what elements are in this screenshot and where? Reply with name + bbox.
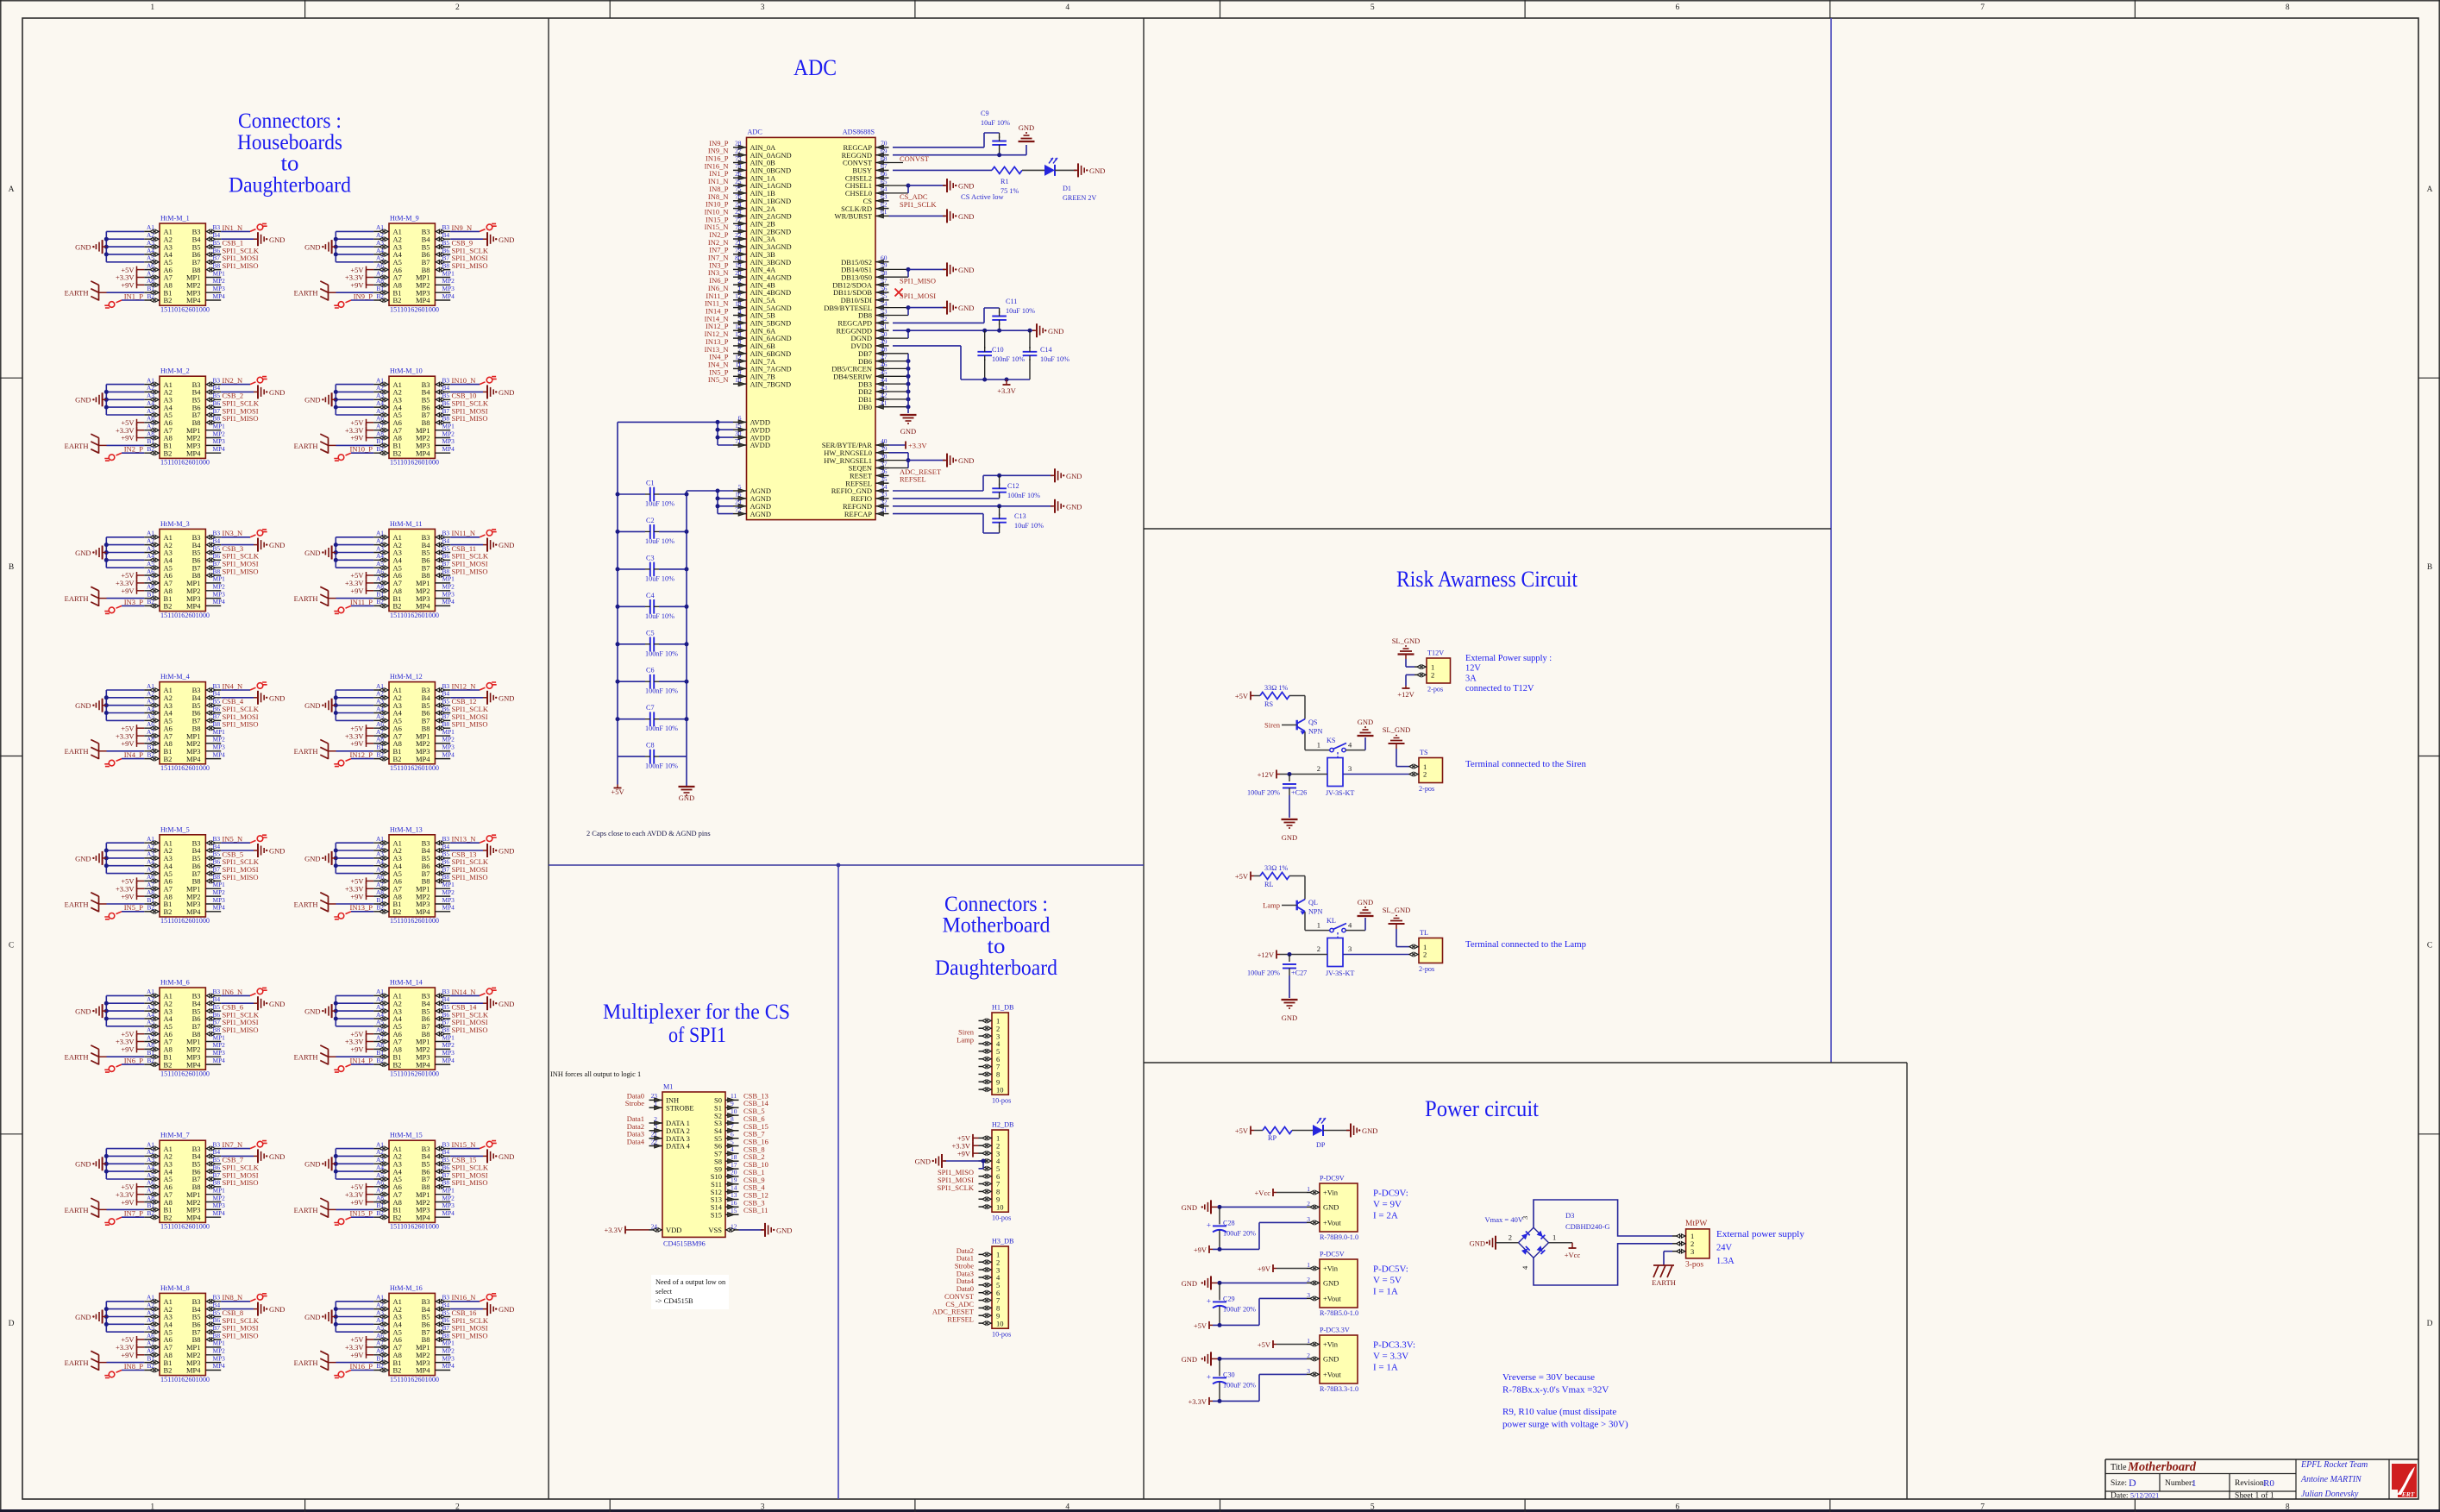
svg-text:IN3_P: IN3_P	[124, 598, 143, 606]
svg-text:EARTH: EARTH	[294, 1358, 318, 1367]
svg-text:+9V: +9V	[957, 1149, 971, 1158]
pin B6 of HtM-M_1	[205, 254, 221, 255]
svg-text:V = 3.3V: V = 3.3V	[1373, 1352, 1408, 1362]
svg-text:A7: A7	[147, 881, 154, 888]
svg-text:10-pos: 10-pos	[992, 1214, 1011, 1222]
pin B4 of HtM-M_4	[205, 697, 221, 699]
connector HtM-M_3	[160, 529, 205, 611]
pin B3 of HtM-M_6	[205, 994, 221, 996]
EARTH symbol at pin B1 of HtM-M_11	[328, 591, 329, 606]
svg-text:+9V: +9V	[1194, 1245, 1207, 1254]
svg-text:A6: A6	[147, 1026, 154, 1034]
pin B4 of HtM-M_11	[435, 544, 450, 546]
svg-text:MP4: MP4	[442, 292, 455, 300]
pin A5 of HtM-M_9	[373, 261, 389, 263]
svg-text:P-DC3.3V:: P-DC3.3V:	[1373, 1340, 1415, 1351]
wire GND bus to pins A1-A5 of HtM-M_2	[106, 384, 144, 386]
pin A8 of HtM-M_2	[144, 437, 160, 439]
svg-text:2: 2	[654, 1115, 657, 1123]
svg-text:of SPI1: of SPI1	[668, 1024, 726, 1047]
pin A8 of HtM-M_8	[144, 1354, 160, 1356]
svg-text:B1: B1	[147, 1201, 154, 1209]
svg-text:MP4: MP4	[442, 1362, 455, 1370]
wire and power port GND at pin B4 of HtM-M_15	[450, 1155, 483, 1157]
pin B5 of HtM-M_5	[205, 857, 221, 859]
pin A6 of HtM-M_11	[373, 574, 389, 576]
svg-text:IN7_N: IN7_N	[223, 1140, 243, 1149]
pin AIN_4BGND (1) of ADC with net IN6_N	[733, 292, 747, 293]
pin AIN_2B (77) of ADC with net IN15_P	[733, 223, 747, 224]
svg-text:A: A	[2427, 185, 2433, 194]
svg-text:GND: GND	[269, 693, 285, 702]
pin A7 of HtM-M_13	[373, 888, 389, 889]
svg-text:9: 9	[731, 1100, 734, 1107]
svg-text:B5: B5	[213, 698, 221, 706]
pin A6 of HtM-M_3	[144, 574, 160, 576]
svg-text:10uF 10%: 10uF 10%	[645, 574, 674, 582]
svg-text:GND: GND	[499, 847, 514, 856]
pin B4 of HtM-M_2	[205, 391, 221, 392]
svg-text:100uF 20%: 100uF 20%	[1223, 1381, 1256, 1389]
svg-text:43: 43	[881, 384, 888, 392]
svg-text:B5: B5	[213, 1308, 221, 1316]
pin AGND (29) of ADC	[733, 505, 747, 507]
svg-text:A4: A4	[376, 705, 384, 712]
svg-text:C10: C10	[992, 346, 1004, 354]
svg-text:AVDD: AVDD	[750, 441, 770, 449]
svg-text:IN13_P: IN13_P	[350, 903, 373, 912]
svg-text:15110162601000: 15110162601000	[390, 459, 439, 467]
svg-text:B2: B2	[393, 1214, 402, 1222]
svg-text:A8: A8	[147, 1194, 154, 1201]
svg-text:C4: C4	[646, 592, 655, 599]
pin A3 of HtM-M_3	[144, 552, 160, 554]
power ports +5V +3.3V +9V of HtM-M_1	[136, 270, 138, 285]
svg-text:A5: A5	[147, 407, 154, 415]
svg-text:6: 6	[731, 1131, 734, 1139]
pin B6 of HtM-M_10	[435, 406, 450, 408]
pin A3 of HtM-M_16	[373, 1316, 389, 1318]
svg-text:GND: GND	[75, 243, 91, 252]
svg-text:S15: S15	[711, 1210, 722, 1219]
svg-text:+5V: +5V	[1235, 1126, 1249, 1135]
pin MP1 of HtM-M_9	[435, 277, 450, 279]
pin B8 of HtM-M_12	[435, 727, 450, 729]
pin 8 of H2_DB	[979, 1190, 993, 1192]
svg-text:B1: B1	[147, 285, 154, 292]
svg-text:GND: GND	[958, 456, 974, 465]
pin B5 of HtM-M_12	[435, 705, 450, 706]
junction dots on GND bus of HtM-M_10	[334, 390, 338, 394]
svg-text:B7: B7	[442, 560, 450, 568]
svg-text:B8: B8	[442, 261, 450, 269]
svg-text:100uF 20%: 100uF 20%	[1247, 789, 1280, 797]
pin AIN_5A (17) of ADC with net IN11_P	[733, 299, 747, 301]
svg-text:A7: A7	[147, 1033, 154, 1041]
svg-text:37: 37	[881, 460, 888, 467]
svg-text:IN3_N: IN3_N	[223, 529, 243, 537]
svg-text:SPI1_MISO: SPI1_MISO	[223, 414, 259, 423]
pin B1 of HtM-M_1	[144, 292, 160, 293]
pin MP2 of HtM-M_6	[205, 1048, 221, 1050]
wire EARTH to pin B1 of HtM-M_11	[329, 598, 336, 599]
pin B2 of HtM-M_14	[373, 1063, 389, 1065]
svg-text:Sheet 1 of 1: Sheet 1 of 1	[2235, 1491, 2274, 1501]
svg-text:A2: A2	[147, 384, 154, 392]
pin B4 of HtM-M_10	[435, 391, 450, 392]
pin VDD (24) of M1 with +3.3V port	[649, 1229, 663, 1231]
svg-text:HtM-M_4: HtM-M_4	[160, 673, 190, 681]
svg-text:A2: A2	[147, 231, 154, 239]
pin B5 of HtM-M_1	[205, 246, 221, 248]
pin A3 of HtM-M_6	[144, 1010, 160, 1012]
pin B5 of HtM-M_4	[205, 705, 221, 706]
pin A2 of HtM-M_11	[373, 544, 389, 546]
svg-text:58: 58	[881, 269, 888, 277]
wire EARTH to pin B1 of HtM-M_13	[329, 903, 336, 905]
pin B6 of HtM-M_12	[435, 712, 450, 714]
pin B1 of HtM-M_5	[144, 903, 160, 905]
svg-text:B2: B2	[376, 904, 384, 912]
svg-text:IN8_P: IN8_P	[124, 1362, 143, 1371]
capacitor C5	[618, 643, 645, 645]
svg-text:+9V: +9V	[350, 739, 364, 748]
svg-text:B5: B5	[213, 850, 221, 858]
wire and power port GND at pin B4 of HtM-M_4	[221, 697, 254, 699]
pin AVDD (30) of ADC	[733, 436, 747, 438]
svg-text:GND: GND	[915, 1158, 931, 1166]
svg-text:QS: QS	[1308, 718, 1318, 726]
svg-text:18: 18	[731, 1153, 737, 1161]
svg-text:A1: A1	[147, 376, 154, 384]
svg-text:A3: A3	[147, 392, 154, 399]
wire +Vout of P-DC5V to +5V rail	[1259, 1297, 1307, 1299]
svg-text:B8: B8	[213, 720, 221, 728]
svg-text:B7: B7	[213, 1019, 221, 1026]
pin MP3 of HtM-M_8	[205, 1362, 221, 1364]
svg-text:Title: Title	[2111, 1463, 2127, 1472]
svg-text:C14: C14	[1040, 346, 1052, 354]
svg-text:4: 4	[1065, 3, 1069, 12]
svg-text:A4: A4	[147, 705, 154, 712]
pin A3 of HtM-M_1	[144, 246, 160, 248]
svg-text:75: 75	[735, 185, 742, 193]
pin AIN_6BGND (7) of ADC with net IN13_N	[733, 353, 747, 354]
pin A7 of HtM-M_4	[144, 735, 160, 737]
wire switch KL to GND	[1345, 930, 1365, 932]
svg-text:15110162601000: 15110162601000	[160, 459, 210, 467]
pin AIN_4B (2) of ADC with net IN6_P	[733, 284, 747, 285]
pin 2 GND of P-DC5V	[1307, 1282, 1320, 1283]
pin B3 of HtM-M_4	[205, 689, 221, 691]
svg-text:B7: B7	[442, 1171, 450, 1179]
svg-text:39: 39	[881, 445, 888, 453]
svg-text:B2: B2	[147, 904, 154, 912]
relay coil KS JV-3S-KT	[1327, 758, 1343, 787]
pin B8 of HtM-M_7	[205, 1186, 221, 1188]
svg-text:A3: A3	[376, 850, 384, 858]
EARTH symbol at pin B1 of HtM-M_16	[328, 1355, 329, 1371]
power ports +5V +3.3V +9V of HtM-M_9	[366, 270, 367, 285]
pin DB4/SERIW (45) of ADC	[875, 375, 889, 377]
svg-text:34: 34	[881, 483, 888, 491]
svg-text:IN6_N: IN6_N	[223, 988, 243, 996]
svg-text:15110162601000: 15110162601000	[160, 917, 210, 925]
pin B1 of HtM-M_13	[373, 903, 389, 905]
pin MP4 of HtM-M_6	[205, 1063, 221, 1065]
wire and power port GND at pin B4 of HtM-M_3	[221, 544, 254, 546]
svg-text:1: 1	[1317, 741, 1320, 750]
svg-text:MP1: MP1	[442, 881, 455, 888]
pin 8 of H3_DB	[979, 1307, 993, 1308]
svg-text:A8: A8	[376, 1041, 384, 1049]
pin MP2 of HtM-M_7	[205, 1201, 221, 1203]
svg-text:2-pos: 2-pos	[1427, 686, 1443, 693]
svg-text:V = 5V: V = 5V	[1373, 1276, 1402, 1286]
svg-text:2: 2	[1307, 1276, 1310, 1283]
svg-text:+5V: +5V	[1235, 872, 1249, 881]
pin AIN_4AGND (20) of ADC with net IN3_N	[733, 276, 747, 278]
pin HW_RNGSEL0 (39) of ADC	[875, 452, 889, 454]
svg-text:MP3: MP3	[213, 285, 226, 292]
connector HtM-M_2	[160, 376, 205, 458]
wire and power port GND at pin B4 of HtM-M_16	[450, 1308, 483, 1310]
pin B7 of HtM-M_9	[435, 261, 450, 263]
svg-text:B2: B2	[147, 1209, 154, 1217]
svg-text:Motherboard: Motherboard	[2127, 1460, 2197, 1474]
svg-text:B2: B2	[147, 445, 154, 453]
svg-text:Motherboard: Motherboard	[943, 914, 1051, 938]
svg-text:56: 56	[881, 285, 888, 292]
wire and power port GND at pin B4 of HtM-M_6	[221, 1002, 254, 1004]
svg-text:Julian Donevsky: Julian Donevsky	[2301, 1490, 2359, 1499]
pin SER/BYTE/PAR (40) of ADC	[875, 444, 889, 446]
svg-text:B8: B8	[213, 1026, 221, 1034]
pin B5 of HtM-M_11	[435, 552, 450, 554]
svg-text:1: 1	[2192, 1478, 2197, 1489]
pin CONVST (68) of ADC	[875, 162, 889, 164]
power port +5V of Lamp driver	[1251, 875, 1254, 877]
pin A5 of HtM-M_1	[144, 261, 160, 263]
svg-text:2: 2	[1431, 671, 1434, 680]
svg-text:Terminal connected to the Sire: Terminal connected to the Siren	[1465, 759, 1586, 769]
svg-text:B2: B2	[393, 1366, 402, 1375]
pin A5 of HtM-M_11	[373, 567, 389, 568]
svg-text:15110162601000: 15110162601000	[160, 1223, 210, 1231]
pin MP3 of HtM-M_10	[435, 444, 450, 446]
pin A1 of HtM-M_6	[144, 994, 160, 996]
svg-text:SL_GND: SL_GND	[1392, 637, 1421, 645]
pin B7 of HtM-M_5	[205, 873, 221, 875]
svg-text:GND: GND	[269, 1000, 285, 1008]
power port GND right of LED DP	[1346, 1130, 1351, 1132]
svg-text:GND: GND	[1362, 1126, 1377, 1135]
pin A4 of HtM-M_8	[144, 1323, 160, 1325]
connector TS 2-pos	[1419, 758, 1443, 783]
svg-text:33: 33	[881, 491, 888, 499]
pin AIN_0B (73) of ADC with net IN16_P	[733, 162, 747, 164]
pin 1 of H2_DB	[979, 1137, 993, 1139]
svg-text:B2: B2	[376, 750, 384, 758]
wire GND bus to pins A1-A5 of HtM-M_15	[336, 1148, 373, 1150]
wire DGND join REGGNDD	[889, 337, 909, 339]
pin 2 of H1_DB	[979, 1027, 993, 1029]
wire coil KL to terminal TL	[1343, 954, 1410, 956]
svg-text:A2: A2	[147, 995, 154, 1003]
svg-text:15110162601000: 15110162601000	[390, 1223, 439, 1231]
svg-text:19: 19	[735, 261, 742, 269]
svg-text:B4: B4	[442, 1301, 450, 1308]
wire RL to transistor QL	[1289, 875, 1305, 877]
svg-text:IN10_N: IN10_N	[452, 376, 476, 385]
pin AGND (16) of ADC	[733, 498, 747, 499]
pin MP3 of HtM-M_12	[435, 750, 450, 752]
pin MP1 of HtM-M_2	[205, 430, 221, 431]
svg-text:EARTH: EARTH	[65, 289, 89, 298]
svg-text:D3: D3	[1565, 1211, 1574, 1220]
pin B2 of HtM-M_13	[373, 911, 389, 913]
svg-text:A8: A8	[376, 736, 384, 743]
svg-text:B3: B3	[213, 682, 221, 690]
pin B5 of HtM-M_2	[205, 398, 221, 400]
pin CHSEL1 (65) of ADC	[875, 185, 889, 186]
svg-text:B2: B2	[164, 1214, 172, 1222]
svg-text:A2: A2	[147, 1301, 154, 1308]
svg-text:A7: A7	[147, 423, 154, 430]
svg-text:B7: B7	[213, 1324, 221, 1332]
pin 3 of H3_DB	[979, 1269, 993, 1270]
wire GND bus to pins A1-A5 of HtM-M_9	[336, 230, 373, 232]
pin A2 of HtM-M_4	[144, 697, 160, 699]
pin A8 of HtM-M_16	[373, 1354, 389, 1356]
svg-text:A5: A5	[376, 1324, 384, 1332]
svg-text:SPI1_MISO: SPI1_MISO	[223, 567, 259, 575]
pin MP2 of HtM-M_13	[435, 895, 450, 897]
pin A6 of HtM-M_4	[144, 727, 160, 729]
svg-text:61: 61	[881, 208, 888, 216]
svg-text:A8: A8	[376, 277, 384, 285]
svg-text:+9V: +9V	[121, 281, 135, 290]
svg-text:2 Caps close to each AVDD & AG: 2 Caps close to each AVDD & AGND pins	[586, 830, 711, 838]
svg-text:P-DC9V: P-DC9V	[1320, 1175, 1345, 1183]
pin B7 of HtM-M_6	[205, 1026, 221, 1027]
ground below capacitor C26	[1289, 795, 1290, 818]
pin A7 of HtM-M_9	[373, 277, 389, 279]
svg-text:GND: GND	[269, 235, 285, 244]
svg-text:B3: B3	[213, 988, 221, 995]
capacitor C11 at REGCAPD	[893, 322, 984, 323]
svg-text:15: 15	[735, 422, 742, 430]
wire DB14/DB13 to GND	[889, 268, 909, 270]
connector H1_DB 10-pos	[992, 1013, 1008, 1095]
svg-text:B1: B1	[147, 437, 154, 445]
pin AVDD (71) of ADC	[733, 444, 747, 446]
svg-text:12: 12	[731, 1222, 737, 1230]
svg-text:MP4: MP4	[213, 1362, 226, 1370]
svg-text:B5: B5	[442, 1003, 450, 1011]
pin AIN_6A (14) of ADC with net IN12_P	[733, 329, 747, 331]
pin 2 of H3_DB	[979, 1261, 993, 1263]
svg-text:B4: B4	[213, 995, 221, 1003]
svg-text:REFSEL: REFSEL	[947, 1315, 974, 1324]
svg-text:R-78Bx.x-y.0's Vmax =32V: R-78Bx.x-y.0's Vmax =32V	[1502, 1385, 1609, 1396]
svg-text:EARTH: EARTH	[65, 1053, 89, 1062]
svg-text:5: 5	[738, 483, 742, 491]
pin A6 of HtM-M_14	[373, 1033, 389, 1035]
svg-text:MP4: MP4	[186, 907, 201, 916]
pin MP2 of HtM-M_15	[435, 1201, 450, 1203]
svg-text:IN1_N: IN1_N	[223, 223, 243, 232]
pin MP1 of HtM-M_1	[205, 277, 221, 279]
pin A3 of HtM-M_12	[373, 705, 389, 706]
wire GND bus to pins A1-A5 of HtM-M_3	[106, 536, 144, 538]
svg-text:MP2: MP2	[442, 583, 455, 591]
section divider vertical right of Power circuit box	[1906, 1063, 1908, 1499]
pin B1 of HtM-M_7	[144, 1208, 160, 1210]
svg-text:GND: GND	[304, 549, 320, 557]
svg-text:B6: B6	[442, 247, 450, 254]
svg-text:B5: B5	[442, 850, 450, 858]
svg-text:A5: A5	[376, 560, 384, 568]
pin DB0 (41) of ADC	[875, 406, 889, 408]
svg-text:A1: A1	[147, 1140, 154, 1148]
svg-text:A5: A5	[376, 1019, 384, 1026]
power port +12V to coil KS	[1280, 774, 1327, 775]
junction dots on GND bus of HtM-M_7	[104, 1154, 109, 1158]
EARTH symbol at pin B1 of HtM-M_10	[328, 437, 329, 453]
pin DB13/0S0 (58) of ADC	[875, 276, 889, 278]
pin B1 of HtM-M_9	[373, 292, 389, 293]
pin A1 of HtM-M_8	[144, 1301, 160, 1302]
svg-text:10uF 10%: 10uF 10%	[645, 612, 674, 620]
capacitor C12 at REFIO_GND/REFIO	[893, 490, 983, 492]
svg-text:A5: A5	[376, 407, 384, 415]
junction dots on GND bus of HtM-M_15	[334, 1154, 338, 1158]
pin B7 of HtM-M_7	[205, 1178, 221, 1180]
svg-text:MP4: MP4	[186, 1366, 201, 1375]
svg-text:IN9_P: IN9_P	[354, 292, 373, 300]
pin AIN_5AGND (18) of ADC with net IN11_N	[733, 307, 747, 309]
svg-text:GND: GND	[75, 396, 91, 405]
svg-text:MP3: MP3	[213, 590, 226, 598]
svg-text:Houseboards: Houseboards	[237, 131, 342, 154]
svg-text:HtM-M_10: HtM-M_10	[390, 367, 423, 375]
pin AVDD (15) of ADC	[733, 429, 747, 430]
svg-text:24: 24	[735, 200, 742, 208]
svg-text:B2: B2	[393, 449, 402, 458]
svg-text:M1: M1	[663, 1083, 673, 1091]
svg-text:EPFL Rocket Team: EPFL Rocket Team	[2300, 1460, 2368, 1470]
pin B4 of HtM-M_14	[435, 1002, 450, 1004]
svg-text:A5: A5	[147, 1019, 154, 1026]
svg-text:10: 10	[996, 1202, 1004, 1211]
svg-text:B3: B3	[442, 682, 450, 690]
svg-text:74: 74	[735, 162, 742, 170]
svg-text:RP: RP	[1268, 1134, 1276, 1142]
pin A3 of HtM-M_14	[373, 1010, 389, 1012]
svg-text:B3: B3	[213, 376, 221, 384]
pin 7 of H2_DB	[979, 1183, 993, 1185]
pin S7 (4) of M1 with net CSB_8	[725, 1152, 739, 1154]
svg-text:GND: GND	[499, 1152, 514, 1161]
pin B7 of HtM-M_3	[205, 567, 221, 568]
svg-text:A4: A4	[147, 399, 154, 407]
svg-text:CS Active low: CS Active low	[961, 192, 1004, 201]
power ports +5V +3.3V +9V of HtM-M_14	[366, 1034, 367, 1050]
wire EARTH to pin B1 of HtM-M_6	[99, 1056, 107, 1057]
power port GND left of HtM-M_1	[103, 246, 107, 248]
pin REGCAP (70) of ADC	[875, 147, 889, 148]
